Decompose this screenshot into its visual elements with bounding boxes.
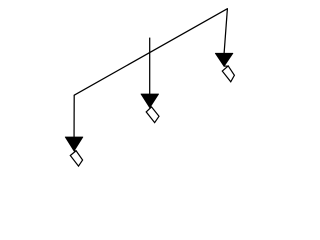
arrowhead: right arrow: [215, 53, 233, 66]
wire: middle vertical drop: [149, 38, 151, 95]
wire: right vertical drop from peak: [224, 9, 227, 54]
arrowhead: left arrow: [65, 137, 83, 151]
node marker: left rotated-square diamond: [70, 151, 82, 166]
wire: diagonal connector from top-right peak to left drop corner: [74, 9, 227, 96]
node marker: right rotated-square diamond: [222, 66, 234, 82]
wire: left vertical drop: [73, 95, 75, 138]
wire: apex-to-diamond junction middle: [150, 106, 152, 109]
node marker: middle rotated-square diamond: [146, 107, 159, 123]
arrowhead: middle arrow: [141, 94, 159, 108]
wire: apex-to-diamond junction left: [74, 150, 76, 152]
wire: apex-to-diamond junction right: [224, 65, 228, 67]
